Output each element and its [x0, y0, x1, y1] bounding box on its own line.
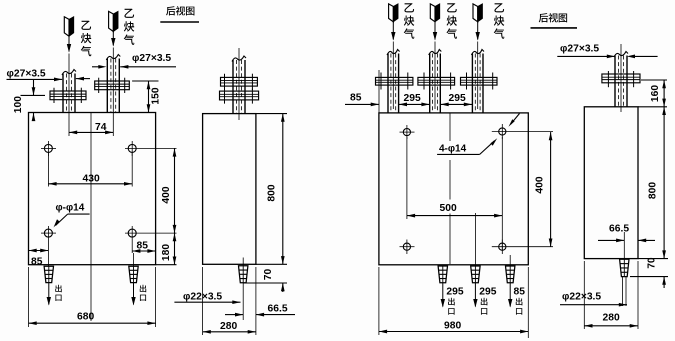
svg-text:φ22×3.5: φ22×3.5 — [562, 292, 601, 303]
body centreline (middle view) — [449, 113, 451, 141]
body left edge extension up (85 dim) — [378, 70, 380, 113]
body centreline (left view) — [90, 113, 92, 321]
label 乙炔气 (middle pipe2) — [447, 3, 457, 12]
dimension 85 (right hole offset) — [132, 250, 155, 252]
middle pipe2 centreline — [434, 42, 436, 110]
lower-left hole — [44, 229, 52, 237]
body top extension (side2) — [638, 106, 667, 108]
flow arrow out of middle N1 — [442, 283, 444, 307]
side nozzle tail line — [242, 283, 244, 320]
title rear-view label 后视图 (left) — [166, 6, 175, 15]
dimension 295 (pipe2-pipe3) — [441, 103, 473, 105]
extension lines for 430 — [47, 152, 49, 187]
hole column extension lines (500 dim) — [406, 137, 408, 219]
extension lines for 680 — [28, 267, 30, 327]
body top extension (side view) — [256, 113, 287, 115]
title rear-view label 后视图 (right) — [539, 13, 548, 22]
svg-text:160: 160 — [650, 85, 661, 102]
pipe1 walls and bore — [62, 74, 64, 113]
middle nozzle N3 — [506, 266, 515, 283]
hole row extensions (400 dim) — [510, 246, 553, 248]
leader for φ22×3.5 side2 — [560, 304, 621, 306]
middle nozzle N2 centreline stub — [474, 213, 476, 266]
dimension 70 (nozzle length, side view) — [282, 283, 284, 292]
middle nozzle N1 — [438, 266, 447, 283]
nozzle bottom extension — [243, 282, 287, 284]
dimension 280 (side2 body depth) — [584, 325, 638, 327]
side body outline (left rear view) — [203, 114, 256, 265]
lower-right hole — [128, 229, 136, 237]
dimension 680 (body width) — [29, 322, 156, 324]
leader for φ22×3.5 — [174, 301, 234, 303]
svg-text:85: 85 — [514, 287, 526, 298]
svg-text:280: 280 — [220, 321, 237, 332]
flange extension (160 dim) — [641, 79, 667, 81]
svg-text:74: 74 — [95, 122, 107, 133]
dimension 400 (hole rows, middle) — [550, 132, 552, 247]
side2 pipe centreline — [620, 44, 622, 112]
side2 nozzle centreline stub — [623, 232, 625, 260]
flow arrow out of middle N2 — [474, 283, 476, 307]
dimension 400 (hole rows) — [174, 148, 176, 233]
svg-text:150: 150 — [151, 87, 162, 104]
label 出口 (N2) — [140, 285, 146, 292]
corner leader arrow to upper-right hole — [511, 114, 520, 125]
middle flange F3 — [461, 77, 498, 85]
acetylene flow banner 2 (left view pipe2) — [109, 11, 114, 31]
side2 pipe walls and bore — [614, 56, 616, 107]
flow arrow out of middle N3 — [509, 283, 511, 307]
acetylene flow banner 1 (left view pipe1) — [64, 17, 69, 36]
drain nozzle N1 (left view) — [44, 266, 53, 282]
svg-text:295: 295 — [404, 93, 421, 104]
side pipe mouth break — [232, 56, 246, 62]
middle nozzle N3 centreline stub — [509, 255, 511, 266]
middle pipe3 walls and bore — [471, 54, 473, 113]
pipe2 mouth break — [106, 55, 120, 61]
dimension 66.5 (nozzle offset) — [225, 314, 237, 316]
upper-right hole — [128, 144, 136, 152]
middle upper-left hole — [403, 129, 410, 136]
flow arrow into middle pipe2 — [434, 22, 436, 40]
flow arrow out of N1 — [48, 283, 50, 305]
svg-text:100: 100 — [13, 96, 24, 113]
pipe2 centreline — [112, 48, 114, 137]
side2 nozzle tail lines — [622, 277, 624, 306]
acetylene flow banner 2 (middle view) — [430, 4, 435, 22]
middle pipe1 walls and bore — [387, 54, 389, 113]
label 乙炔气 (pipe1) — [81, 21, 91, 30]
body outline (middle front view) — [379, 113, 528, 265]
extension lines for 280 — [202, 267, 204, 335]
body bottom extension (side view) — [256, 263, 287, 265]
flow arrow into pipe1 — [68, 36, 70, 51]
svg-text:70: 70 — [646, 257, 657, 269]
dimension 70 (side2 nozzle length) — [663, 277, 665, 288]
label 出口 (N1) — [55, 285, 61, 292]
side2 body outline (right rear view) — [584, 107, 638, 259]
dimension 430 (hole spacing) — [48, 183, 132, 185]
middle pipe3 mouth break — [471, 50, 484, 56]
pipe1 centreline — [68, 54, 70, 137]
flow arrow out of N2 — [133, 283, 135, 305]
svg-text:85: 85 — [31, 257, 43, 268]
upper-left hole — [44, 144, 52, 152]
leader for φ-φ14 — [68, 213, 90, 215]
leader for φ27×3.5 side2 — [557, 55, 608, 57]
extension lines for 280 (side2) — [583, 261, 585, 329]
dimension 74 (pipe spacing) — [69, 131, 113, 133]
dimension 85 (left hole offset) — [29, 250, 49, 252]
dimension 66.5 arrows — [598, 239, 618, 241]
dimension 295 (pipe1-pipe2) — [399, 103, 430, 105]
svg-text:φ27×3.5: φ27×3.5 — [7, 69, 46, 80]
dimension 100 (pipe1 flange to body top) — [33, 79, 35, 88]
leader for φ27×3.5 pipe2 — [92, 66, 101, 68]
drain nozzle N2 (left view) — [129, 266, 138, 282]
middle pipe3 centreline — [477, 42, 479, 110]
side2 drain nozzle — [620, 259, 629, 276]
svg-text:800: 800 — [648, 182, 659, 199]
side nozzle centreline stub — [242, 258, 244, 267]
svg-text:500: 500 — [440, 203, 457, 214]
dimension 280 (side body depth) — [203, 331, 256, 333]
middle lower-right hole — [499, 243, 506, 250]
svg-text:180: 180 — [161, 244, 172, 261]
label 出口 (middle N2) — [481, 298, 488, 306]
flow arrow into middle pipe3 — [477, 22, 479, 40]
svg-text:φ27×3.5: φ27×3.5 — [132, 53, 171, 64]
svg-text:400: 400 — [535, 176, 546, 193]
label 乙炔气 (middle pipe3) — [494, 3, 504, 12]
svg-text:430: 430 — [83, 173, 100, 184]
flange F2 (pipe2) — [95, 81, 130, 90]
middle pipe2 mouth break — [429, 50, 442, 56]
side pipe centreline — [238, 48, 240, 120]
side2 flange — [602, 74, 640, 83]
dimension 800 (side body height) — [282, 114, 284, 265]
middle nozzle N2 — [471, 266, 480, 283]
svg-text:85: 85 — [137, 241, 149, 252]
extension lines for 980 — [378, 267, 380, 335]
leader for φ27×3.5 pipe1 — [7, 78, 57, 80]
svg-text:295: 295 — [446, 287, 463, 298]
svg-text:85: 85 — [350, 93, 362, 104]
pipe1 mouth break — [62, 70, 76, 76]
dimension 150 (pipe2 flange to body top) — [148, 81, 150, 113]
dimension 180 (lower holes to bottom) — [174, 233, 176, 265]
acetylene flow banner 3 (middle view) — [473, 4, 478, 22]
middle pipe1 mouth break — [387, 50, 400, 56]
svg-text:66.5: 66.5 — [609, 224, 629, 235]
middle lower-left hole — [403, 243, 410, 250]
flow arrow into pipe2 — [112, 32, 114, 46]
svg-text:295: 295 — [479, 287, 496, 298]
svg-text:980: 980 — [444, 321, 461, 332]
nozzle bottom extension (side2) — [630, 276, 668, 278]
middle flange F1 — [376, 77, 413, 85]
svg-text:70: 70 — [263, 269, 274, 281]
label 出口 (middle N1) — [448, 298, 455, 306]
flow arrow into middle pipe1 — [392, 22, 394, 40]
middle upper-right hole — [499, 128, 506, 135]
svg-text:66.5: 66.5 — [268, 304, 288, 315]
side flange lower — [220, 91, 259, 100]
leader for 4-φ14 — [437, 153, 480, 155]
dimension 160 (flange to body top) — [663, 80, 665, 107]
middle flange F2 — [418, 77, 455, 85]
flange F1 (pipe1) — [50, 91, 86, 100]
svg-text:400: 400 — [161, 186, 172, 203]
dimension 500 (hole spacing) — [407, 215, 502, 217]
side flange upper — [221, 77, 258, 86]
side2 pipe mouth break — [614, 52, 628, 58]
svg-text:295: 295 — [449, 93, 466, 104]
pipe2 walls and bore — [106, 59, 108, 113]
label 出口 (middle N3) — [516, 298, 523, 306]
body bottom extension (side2) — [638, 258, 668, 260]
side drain nozzle — [239, 266, 248, 283]
acetylene flow banner 1 (middle view) — [389, 4, 394, 22]
svg-text:φ-φ14: φ-φ14 — [56, 203, 85, 214]
label 乙炔气 (middle pipe1) — [404, 3, 414, 12]
dimension 800 (side2 body height) — [663, 107, 665, 259]
svg-text:800: 800 — [267, 184, 278, 201]
body outline (left front view) — [29, 113, 156, 265]
dimension 980 (middle body width) — [379, 331, 528, 333]
svg-text:680: 680 — [77, 312, 94, 323]
label 乙炔气 (pipe2) — [124, 9, 134, 18]
side pipe walls and bore — [232, 60, 234, 114]
svg-text:4-φ14: 4-φ14 — [439, 144, 467, 155]
svg-text:280: 280 — [603, 313, 620, 324]
svg-text:φ27×3.5: φ27×3.5 — [560, 44, 599, 55]
middle pipe1 centreline — [392, 42, 394, 110]
middle pipe2 walls and bore — [429, 54, 431, 113]
